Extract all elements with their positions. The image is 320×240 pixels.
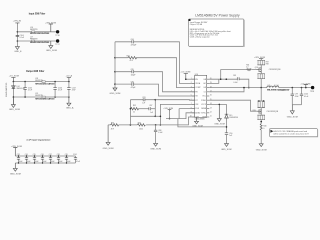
svg-text:10uF: 10uF — [43, 161, 47, 163]
ic pin stubs right — [207, 79, 210, 117]
connector TP16 — [55, 30, 59, 37]
svg-text:8: 8 — [191, 107, 192, 109]
svg-text:CSD18532Q5B: CSD18532Q5B — [266, 111, 279, 113]
svg-text:MPZ2012S101AT000: MPZ2012S101AT000 — [30, 41, 50, 44]
svg-text:DEMB: DEMB — [201, 108, 207, 110]
node out caps — [292, 87, 294, 89]
note box design notes — [189, 19, 245, 47]
capacitor C85 boot — [233, 75, 239, 84]
ferrite L17 — [30, 36, 50, 44]
resistor R34 — [137, 122, 145, 130]
ferrite L19 — [35, 93, 55, 101]
wire bank rail bottom — [15, 162, 75, 164]
svg-text:COMP: COMP — [195, 87, 201, 89]
ground GND_E — [14, 47, 22, 53]
wire pin7 riser — [160, 104, 195, 125]
svg-text:12: 12 — [210, 112, 212, 114]
svg-text:GND_SOM: GND_SOM — [287, 117, 298, 119]
power flag +VIN_IN — [13, 21, 22, 24]
svg-text:R39: R39 — [253, 110, 256, 112]
capacitor C94 — [25, 154, 31, 164]
capacitor C86 — [131, 81, 136, 89]
wire cluster bottom to pin9 — [155, 115, 160, 117]
wire cluster to pin6 — [155, 99, 194, 102]
svg-text:10uF: 10uF — [59, 161, 63, 163]
svg-text:1uF: 1uF — [229, 135, 232, 137]
capacitor C95 — [33, 154, 39, 164]
ic pin numbers — [190, 78, 212, 118]
svg-text:3: 3 — [191, 86, 192, 88]
svg-text:GND_SOM: GND_SOM — [10, 173, 21, 175]
svg-text:470pF: 470pF — [131, 87, 136, 89]
svg-text:U16: U16 — [195, 74, 198, 76]
svg-text:C98: C98 — [57, 154, 60, 156]
svg-text:1uF: 1uF — [142, 102, 145, 104]
svg-text:WE-XHMI 744393440047: WE-XHMI 744393440047 — [267, 89, 290, 92]
ground C88 — [150, 143, 161, 150]
ic pin names — [195, 79, 206, 119]
wire comp bus — [114, 42, 116, 88]
svg-text:R36: R36 — [246, 64, 249, 66]
svg-text:+5V_SOM: +5V_SOM — [300, 83, 310, 85]
wire bank rail top — [15, 155, 75, 157]
svg-text:C93: C93 — [17, 154, 20, 156]
svg-text:Q16: Q16 — [255, 67, 258, 69]
svg-text:0.1uF: 0.1uF — [304, 96, 308, 98]
svg-text:GND_SOM: GND_SOM — [256, 150, 267, 152]
svg-text:SMAJ5.0ABCT-ND: SMAJ5.0ABCT-ND — [5, 82, 8, 97]
svg-text:GND_SOM: GND_SOM — [9, 109, 20, 111]
svg-text:6: 6 — [191, 99, 192, 101]
capacitor C107 — [67, 82, 76, 97]
wire bottom row — [108, 117, 195, 125]
wire branch3 — [115, 72, 195, 92]
svg-text:C101: C101 — [73, 154, 77, 156]
svg-text:2k: 2k — [133, 112, 135, 114]
node bus b4 — [114, 83, 116, 85]
capacitor C98 — [57, 154, 63, 164]
ground GND_SOM row2 — [46, 41, 57, 52]
power flag +5V_SOM ic — [180, 72, 194, 80]
svg-text:GND_E: GND_E — [14, 51, 22, 53]
svg-text:C83: C83 — [142, 97, 145, 99]
wire branch4 — [115, 84, 195, 96]
wire row1 — [17, 31, 56, 33]
capacitor C101 — [73, 154, 80, 163]
svg-text:2: 2 — [191, 82, 192, 84]
ferrite L16 — [30, 27, 50, 35]
svg-text:RT: RT — [195, 100, 197, 102]
wire branch1 — [115, 42, 195, 84]
transistor Q17 — [253, 108, 279, 114]
svg-text:C96: C96 — [41, 154, 44, 156]
ground C90 — [221, 144, 232, 151]
net label +VIN_SOM — [163, 108, 173, 119]
svg-text:0.1uF: 0.1uF — [158, 132, 162, 134]
svg-text:PGND: PGND — [201, 100, 207, 102]
svg-text:GND_SOM: GND_SOM — [110, 93, 121, 95]
capacitor C90 — [225, 133, 233, 144]
svg-text:R37: R37 — [266, 61, 269, 63]
svg-text:10: 10 — [190, 116, 192, 118]
svg-text:1: 1 — [191, 78, 192, 80]
svg-text:TP17: TP17 — [55, 44, 59, 46]
svg-text:0.1uF: 0.1uF — [76, 161, 80, 163]
svg-text:C84: C84 — [131, 39, 134, 41]
power flag +VIN_SOM bank — [11, 146, 22, 156]
svg-text:100k: 100k — [139, 128, 143, 130]
capacitor C93 — [17, 154, 23, 164]
svg-text:10uF: 10uF — [27, 161, 31, 163]
svg-text:10uF: 10uF — [51, 161, 55, 163]
ground GND_SOM output left — [9, 97, 20, 111]
resistor R31 — [127, 55, 137, 62]
svg-text:7: 7 — [191, 103, 192, 105]
resistor pair R37 R38 — [257, 60, 268, 65]
svg-text:TP18: TP18 — [310, 91, 314, 93]
svg-text:LM5146MB 5V Power Supply: LM5146MB 5V Power Supply — [195, 13, 240, 17]
node SW — [260, 87, 262, 89]
svg-text:GND_A: GND_A — [66, 107, 74, 110]
svg-text:10uF: 10uF — [19, 161, 23, 163]
node row1 junction — [17, 31, 19, 33]
svg-text:GND_SOM: GND_SOM — [46, 50, 57, 52]
svg-text:R35: R35 — [111, 122, 114, 124]
svg-text:9: 9 — [191, 112, 192, 114]
svg-text:4: 4 — [191, 91, 192, 93]
capacitor C104 — [16, 35, 24, 39]
ic pin stubs left — [192, 79, 195, 117]
svg-text:TP16: TP16 — [55, 35, 59, 37]
capacitor C99 — [291, 88, 299, 105]
svg-text:MPZ2012S101AT000: MPZ2012S101AT000 — [30, 32, 50, 35]
svg-text:MPZ2012S101AT000: MPZ2012S101AT000 — [35, 82, 55, 85]
svg-text:Input EMI Filter: Input EMI Filter — [29, 12, 46, 15]
svg-text:MPZ2012S101AT000: MPZ2012S101AT000 — [35, 98, 55, 101]
svg-text:5: 5 — [191, 95, 192, 97]
svg-text:R38: R38 — [266, 63, 269, 65]
svg-text:R31: R31 — [127, 55, 130, 57]
wire left vertical — [12, 82, 14, 105]
svg-text:2.2: 2.2 — [246, 66, 248, 68]
svg-text:C103 = Bump capacitor: C103 = Bump capacitor — [190, 36, 210, 39]
svg-text:Output: 5V, 8A: Output: 5V, 8A — [190, 23, 203, 26]
power flag +VIN_SOM row1 — [45, 22, 56, 32]
wire pin2R jog — [209, 79, 219, 83]
svg-text:R32: R32 — [133, 105, 136, 107]
resistor R35 — [111, 122, 119, 130]
ground GND_A — [66, 97, 74, 110]
capacitor C106 — [53, 82, 62, 97]
svg-text:GND_SOM: GND_SOM — [214, 124, 225, 126]
capacitor C84 — [131, 39, 137, 47]
resistor pair sense1 — [257, 73, 265, 88]
wire HO gate — [221, 70, 257, 80]
svg-text:C95: C95 — [33, 154, 36, 156]
capacitor C105 — [23, 82, 32, 97]
ground bottom row — [103, 125, 114, 150]
wire out caps bottom — [292, 104, 301, 106]
wire input vertical bus — [16, 24, 18, 47]
wire branch2 — [115, 58, 195, 88]
power flag +5V_A — [66, 75, 73, 82]
resistor R32 — [130, 105, 149, 113]
wire Q2 drain — [260, 88, 262, 101]
svg-text:47uF: 47uF — [72, 89, 76, 91]
svg-text:0.1uF: 0.1uF — [233, 82, 237, 84]
svg-text:1N4148WS: 1N4148WS — [229, 117, 239, 119]
power flag +VIN_SOM power stage — [254, 57, 265, 60]
svg-text:GND_SOM: GND_SOM — [221, 149, 232, 151]
power flag +5V_SOM out — [300, 83, 310, 87]
wire pin4R sense — [209, 88, 244, 92]
ferrite L18 — [35, 78, 55, 86]
node Q2 source — [260, 121, 262, 123]
svg-text:AGND: AGND — [195, 111, 201, 114]
svg-text:# uF Input Capacitance: # uF Input Capacitance — [27, 138, 52, 141]
node bottom row a — [130, 124, 132, 126]
capacitor C88 — [154, 125, 163, 143]
svg-text:0: 0 — [263, 128, 264, 130]
svg-text:R34: R34 — [138, 122, 141, 124]
wire LO gate — [209, 100, 256, 111]
power flag +5V_SOM — [9, 76, 19, 82]
op-amp U16 LM5146 — [192, 74, 206, 128]
svg-text:C97: C97 — [49, 154, 52, 156]
wire vcc link — [178, 119, 227, 127]
wire output rail1 — [13, 81, 69, 83]
svg-text:C96: C96 — [281, 90, 284, 92]
svg-text:47uF: 47uF — [295, 96, 299, 98]
svg-text:C85: C85 — [233, 75, 236, 77]
wire pin8 drop — [179, 109, 195, 119]
svg-text:CSD18532Q5B: CSD18532Q5B — [269, 69, 282, 71]
connector TP17 — [55, 39, 59, 46]
resistor R36 — [246, 64, 251, 70]
svg-text:C99: C99 — [65, 154, 68, 156]
svg-text:will be asked this in under al: will be asked this in under also-micro D… — [273, 133, 309, 136]
node bus b3 — [114, 71, 116, 73]
wire row2 — [17, 40, 56, 42]
RC cluster comp lower — [130, 99, 157, 117]
svg-text:13: 13 — [210, 107, 212, 109]
svg-text:L20: L20 — [267, 85, 270, 87]
svg-text:LAYOUT: C95 C85A30B pads must: LAYOUT: C95 C85A30B pads must land — [273, 130, 307, 133]
svg-text:10uF: 10uF — [67, 161, 71, 163]
svg-text:C87: C87 — [149, 105, 152, 107]
svg-text:4.7uF: 4.7uF — [28, 89, 32, 91]
svg-text:1uF: 1uF — [150, 112, 153, 114]
inductor L20 — [267, 85, 291, 91]
svg-text:4.7uH: 4.7uH — [274, 85, 279, 87]
ground GND_SOM bank — [10, 163, 21, 175]
svg-text:11: 11 — [210, 116, 212, 118]
resistor pair sense2 — [257, 100, 265, 107]
diode D15 — [225, 104, 239, 132]
svg-text:ILIM: ILIM — [195, 117, 199, 119]
svg-text:C85: C85 — [131, 69, 134, 71]
wire cluster drop — [129, 116, 131, 125]
svg-text:SYNC: SYNC — [201, 112, 206, 114]
svg-text:Output EMI Filter: Output EMI Filter — [26, 70, 45, 73]
svg-text:4700pF: 4700pF — [131, 45, 137, 47]
wire SW rail — [209, 87, 312, 89]
svg-text:+VIN_IN: +VIN_IN — [13, 21, 22, 23]
svg-text:16: 16 — [210, 95, 212, 97]
capacitor C83 cluster top — [142, 97, 145, 105]
resistor pair sense3 — [257, 114, 265, 124]
capacitor C100 — [300, 88, 309, 105]
svg-text:49.9: 49.9 — [111, 128, 114, 130]
svg-text:49.9: 49.9 — [130, 60, 133, 62]
svg-text:0.1uF: 0.1uF — [20, 37, 24, 39]
node bus b2 — [114, 57, 116, 59]
wire pin7R vcc — [209, 103, 226, 105]
diode D14 — [12, 86, 26, 90]
ground Q2 — [256, 144, 267, 152]
capacitor C99 bank — [65, 154, 71, 164]
svg-text:4.7uF: 4.7uF — [58, 89, 62, 91]
svg-text:10uF: 10uF — [35, 161, 39, 163]
ground comp bus — [110, 88, 121, 95]
capacitor C85b — [131, 69, 136, 77]
transistor Q16 — [255, 65, 282, 73]
ground pin7R — [214, 104, 225, 125]
node bottom row b — [155, 124, 157, 126]
ground out caps — [287, 105, 298, 119]
svg-text:100pF: 100pF — [131, 75, 136, 77]
wire output rail2 — [13, 96, 69, 98]
wire boot pin1R — [209, 79, 249, 87]
wire pin9 link — [166, 113, 195, 119]
svg-text:C94: C94 — [25, 154, 28, 156]
node row2 junction — [17, 40, 19, 42]
svg-text:C86: C86 — [131, 81, 134, 83]
connector TP18 — [310, 86, 314, 93]
capacitor C97 — [49, 154, 55, 164]
note box layout — [269, 129, 318, 137]
capacitor C87 — [149, 105, 155, 114]
resistor R40 — [260, 124, 266, 144]
capacitor C96 — [41, 154, 47, 164]
svg-text:GND_SOM: GND_SOM — [103, 148, 114, 150]
svg-text:GND_SOM: GND_SOM — [150, 149, 161, 151]
